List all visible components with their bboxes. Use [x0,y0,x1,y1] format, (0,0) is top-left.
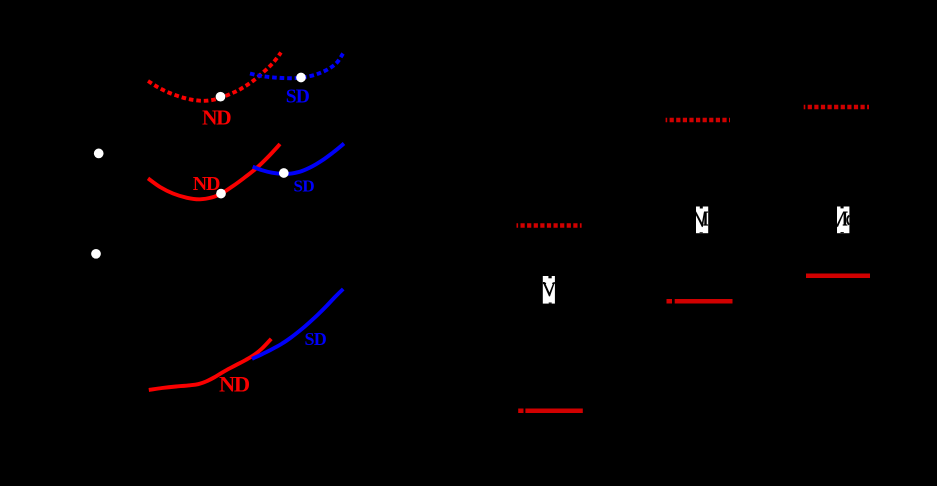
white dot legend marker dot upper [94,149,104,159]
dashed red energy level A (left column) [517,223,582,228]
bottom blue solid SD potential curve [252,289,343,359]
white dot minimum marker on top SD curve [296,73,306,83]
white label box with partial black M glyph (middle column transition) [696,207,708,234]
svg-text:SD: SD [286,86,310,107]
dashed red energy level B (middle column) [666,118,730,123]
svg-text:ND: ND [193,173,220,195]
top blue dashed SD potential curve [250,54,343,79]
svg-text:SD: SD [294,176,315,195]
dashed red energy level C (right column) [804,105,869,110]
solid red energy level F (left column, small gap near left end) [518,409,583,414]
middle red solid ND potential curve [148,144,280,199]
white dot legend marker dot lower [91,249,101,259]
bottom red solid ND potential curve [149,339,271,390]
svg-text:SD: SD [305,329,327,349]
white label box with partial black M glyph (right column transition) [837,207,849,234]
svg-text:ND: ND [219,372,250,397]
top red dashed ND potential curve [148,53,281,101]
white dot minimum marker on middle ND curve [216,189,226,199]
white label box with partial black M glyph (left column transition) [543,276,555,304]
solid red energy level D (right column) [806,273,870,278]
white dot minimum marker on middle SD curve [279,168,289,178]
svg-text:ND: ND [202,106,231,130]
solid red energy level E (middle column, small gap near left end) [667,299,733,304]
white dot minimum marker on top ND curve [216,92,226,102]
middle blue solid SD potential curve [253,144,344,174]
